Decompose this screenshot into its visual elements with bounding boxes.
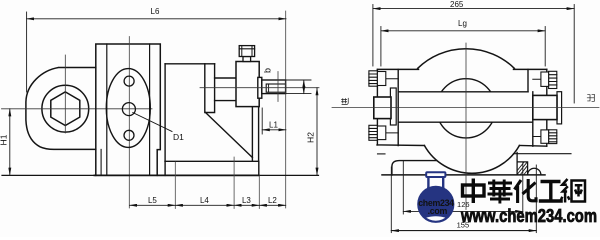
- flange hole bottom: [124, 130, 134, 140]
- right view labels: [450, 0, 470, 229]
- dimension L1: [262, 108, 286, 134]
- right bolt upper: [549, 71, 557, 88]
- dome arc: [418, 49, 515, 69]
- left rear foot stub: [378, 153, 386, 155]
- svg-text:D1: D1: [173, 132, 184, 142]
- shaft centerline: [200, 87, 319, 89]
- grease cup stem: [243, 57, 251, 62]
- shaft keyway: [266, 84, 285, 92]
- flask logo: [418, 172, 454, 225]
- bracket arm top: [165, 63, 215, 65]
- left port square: [374, 97, 391, 119]
- dimension L6: [27, 12, 286, 92]
- right port square: [533, 95, 557, 119]
- D1 leader line: [133, 113, 172, 132]
- svg-text:.com: .com: [428, 206, 448, 216]
- dimension 155: [391, 165, 536, 233]
- gear block inner wall left: [106, 44, 108, 175]
- right inner step: [528, 69, 547, 146]
- bracket diagonal gusset: [206, 113, 253, 158]
- gear chamber inner circle: [436, 79, 495, 138]
- left view labels: [0, 7, 316, 205]
- gear block inner wall right: [149, 44, 151, 175]
- hex plug hexagon: [51, 92, 80, 126]
- dimension 265: [373, 5, 574, 104]
- gong: [539, 182, 563, 202]
- lower gear axis centerline horizontal: [2, 108, 153, 110]
- big chinese text zhong hua hua gong wang: [463, 179, 586, 204]
- shaft tip: [262, 80, 286, 94]
- svg-text:L6: L6: [151, 7, 160, 16]
- right view ground line: [382, 174, 545, 176]
- right bolt nuts: [541, 72, 549, 86]
- bottom edges: [377, 145, 547, 146]
- base plate: [165, 161, 259, 175]
- bracket plate: [205, 64, 215, 113]
- gear block outline: [96, 44, 161, 175]
- foot line: [100, 149, 102, 175]
- right view horizontal centerline: [332, 107, 599, 109]
- outlet character chu: [587, 94, 595, 101]
- dimension b extension lines: [286, 80, 311, 94]
- zhong: [463, 179, 485, 204]
- dimension chain L5 L4 L3 L2: [130, 204, 286, 206]
- svg-text:L4: L4: [200, 196, 209, 205]
- right foot sectioned pad: [517, 153, 528, 175]
- dimension b arrows: [303, 80, 305, 94]
- block vertical centerline: [128, 37, 130, 209]
- hua4: [515, 179, 537, 203]
- left bolt nuts: [377, 72, 385, 86]
- left flange column: [377, 69, 398, 145]
- port duct white fill: [398, 92, 533, 122]
- ground line thick part: [94, 174, 258, 176]
- dimension H1: [9, 109, 11, 175]
- hex plug outer circle: [42, 85, 89, 132]
- right foot pad hatching: [517, 162, 527, 174]
- left bolt centerlines: [377, 79, 398, 133]
- svg-text:www.chem234.com: www.chem234.com: [460, 206, 597, 226]
- flange hole middle: [122, 103, 135, 116]
- inlet character jin: [341, 98, 348, 105]
- bearing block: [236, 62, 259, 107]
- right foot drain dome: [528, 168, 541, 175]
- dimension 126: [403, 161, 523, 214]
- casing back wall: [164, 64, 166, 176]
- shaft collar: [258, 77, 262, 98]
- left view: pump housing body: [26, 68, 96, 150]
- flange hole top: [124, 76, 134, 86]
- ground line: [2, 174, 319, 176]
- hex centerline vertical: [64, 55, 66, 133]
- left port flange plate: [390, 88, 396, 125]
- left bolt lower: [369, 125, 378, 140]
- extension line L6/L2 right: [285, 11, 287, 208]
- svg-text:L2: L2: [268, 196, 277, 205]
- svg-text:H1: H1: [0, 134, 9, 145]
- svg-text:L5: L5: [148, 196, 157, 205]
- wang: [561, 179, 585, 203]
- left foot: [392, 161, 437, 175]
- right view vertical centerline: [465, 43, 467, 210]
- svg-text:Lg: Lg: [458, 19, 467, 28]
- oval flange: [106, 69, 150, 148]
- dimension Lg: [381, 27, 545, 67]
- svg-text:H2: H2: [306, 132, 316, 143]
- casing bottom arc: [424, 146, 519, 174]
- svg-text:b: b: [263, 68, 273, 73]
- left bolt upper: [369, 71, 378, 86]
- top edges: [377, 68, 546, 70]
- svg-text:L3: L3: [242, 196, 251, 205]
- grease cup cap: [239, 46, 254, 57]
- right port flange plate: [557, 92, 562, 124]
- duct top edge: [398, 92, 533, 122]
- dimension chain L5 L4 L3 L2 extension lines: [175, 157, 259, 209]
- thin cross line at shaft end: [277, 72, 279, 102]
- shaft mid section: [215, 78, 236, 101]
- right bolt lower: [549, 130, 557, 144]
- dimension H2: [316, 88, 318, 176]
- svg-text:265: 265: [450, 0, 464, 9]
- svg-text:L1: L1: [269, 121, 278, 130]
- right bolt centerlines: [533, 79, 549, 136]
- hua2: [488, 180, 513, 204]
- support leg: [252, 107, 258, 162]
- right rear foot line: [514, 153, 572, 155]
- grease cup cap lid line: [239, 48, 254, 50]
